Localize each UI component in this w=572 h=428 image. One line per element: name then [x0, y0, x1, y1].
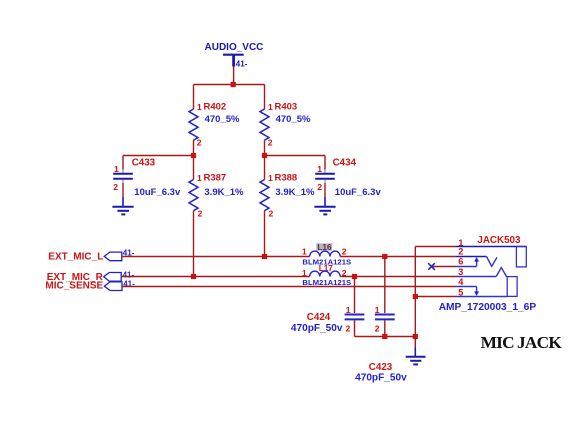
svg-text:BLM21A121S: BLM21A121S — [302, 278, 351, 287]
wire R387 down to EXT_MIC_R line — [193, 211, 195, 277]
node junction left — [191, 153, 196, 158]
wire C424 column — [354, 277, 356, 314]
svg-text:C433: C433 — [132, 158, 156, 169]
svg-text:1: 1 — [114, 164, 119, 174]
ground under jack — [406, 348, 426, 365]
node junction C423/bottom rail — [382, 334, 387, 339]
svg-text:1: 1 — [302, 268, 307, 278]
wire left column to R402 — [193, 85, 195, 110]
wire pin 6 stub — [432, 266, 457, 268]
node junction pin5 tap — [413, 294, 418, 299]
wire C424 to bottom rail — [354, 320, 356, 336]
svg-text:2: 2 — [346, 323, 351, 333]
wire R403 to node — [264, 140, 266, 155]
switch arrow pin4 to pin5 — [476, 287, 478, 293]
svg-text:2: 2 — [458, 247, 463, 257]
capacitor C423 — [355, 305, 407, 384]
svg-text:470_5%: 470_5% — [276, 114, 311, 125]
wire C434 to ground — [324, 183, 326, 197]
svg-text:2: 2 — [342, 247, 347, 257]
svg-text:1: 1 — [268, 102, 273, 112]
pin 6 line — [456, 266, 477, 268]
resistor R387 — [189, 173, 244, 219]
node junction right — [262, 153, 267, 158]
wire node to C433 — [123, 155, 194, 157]
svg-text:C434: C434 — [333, 158, 357, 169]
svg-text:2: 2 — [268, 138, 273, 148]
svg-text:1: 1 — [197, 102, 202, 112]
node junction C424 tap — [352, 274, 357, 279]
ring spring peak — [496, 268, 507, 277]
resistor R403 — [260, 101, 311, 147]
svg-text:R402: R402 — [204, 101, 227, 112]
wire L16 to jack pin 2 — [340, 256, 456, 258]
node junction C423 tap — [382, 254, 387, 259]
wire right column to R403 — [264, 85, 266, 110]
tip spring V — [487, 257, 498, 267]
svg-text:C423: C423 — [369, 362, 393, 373]
port EXT_MIC_R — [47, 271, 135, 283]
svg-text:6: 6 — [458, 257, 463, 267]
svg-text:R388: R388 — [275, 173, 298, 184]
svg-text:1: 1 — [302, 247, 307, 257]
svg-text:2: 2 — [269, 209, 274, 219]
capacitor C434 — [315, 156, 381, 198]
wire VCC stem — [233, 67, 235, 85]
pin 2 line — [456, 256, 487, 258]
wire C423 to bottom rail — [384, 320, 386, 336]
resistor R402 — [189, 101, 240, 147]
svg-text:1: 1 — [268, 173, 273, 183]
port EXT_MIC_L — [48, 249, 134, 263]
wire bottom rail — [355, 336, 416, 338]
svg-text:2: 2 — [198, 209, 203, 219]
svg-text:R403: R403 — [275, 101, 298, 112]
svg-text:MICJACK: MICJACK — [481, 333, 563, 352]
wire EXT_MIC_L to L16 — [122, 256, 310, 258]
wire node to C434 — [265, 155, 326, 157]
svg-text:3.9K_1%: 3.9K_1% — [204, 187, 244, 198]
inductor L17 — [302, 264, 351, 287]
svg-text:1: 1 — [317, 164, 322, 174]
node junction R388/EXT_MIC_L — [262, 254, 267, 259]
wire EXT_MIC_R to L17 — [121, 276, 309, 278]
svg-text:10uF_6.3v: 10uF_6.3v — [134, 187, 181, 198]
wire C423 column — [384, 257, 386, 314]
node junction jack-ground/bottom rail — [413, 334, 418, 339]
svg-text:3: 3 — [458, 267, 463, 277]
no-connect X on pin 6 — [428, 263, 435, 270]
svg-text:R387: R387 — [204, 173, 227, 184]
node junction on top rail — [231, 82, 236, 87]
wire L17 to jack pin 3 — [340, 276, 456, 278]
svg-text:3.9K_1%: 3.9K_1% — [275, 187, 315, 198]
pin 4 line — [456, 286, 477, 288]
pin 5 line — [456, 296, 507, 298]
power symbol AUDIO_VCC — [205, 42, 264, 69]
tip contact rectangle — [516, 247, 526, 267]
svg-text:MIC_SENSE: MIC_SENSE — [45, 281, 103, 292]
switch arrow pin6 to pin2 — [476, 261, 478, 267]
svg-text:1: 1 — [346, 305, 351, 315]
wire R402 to node — [193, 140, 195, 155]
svg-text:470_5%: 470_5% — [205, 114, 240, 125]
svg-text:2: 2 — [317, 182, 322, 192]
svg-text:1: 1 — [375, 305, 380, 315]
svg-text:4: 4 — [458, 277, 464, 287]
capacitor C424 — [291, 305, 365, 334]
svg-text:JACK503: JACK503 — [477, 235, 521, 246]
svg-text:2: 2 — [375, 323, 380, 333]
wire top rail — [194, 84, 265, 86]
wire right column R388 top — [264, 156, 266, 180]
svg-text:EXT_MIC_L: EXT_MIC_L — [48, 252, 103, 263]
ground under C433 — [112, 197, 133, 214]
svg-text:AUDIO_VCC: AUDIO_VCC — [205, 42, 264, 53]
capacitor C433 — [113, 156, 181, 198]
pin 3 line — [456, 276, 496, 278]
svg-text:470pF_50v: 470pF_50v — [291, 323, 343, 334]
wire MIC_SENSE to jack pin 4 — [122, 286, 456, 288]
resistor R388 — [260, 173, 315, 219]
wire C433 to ground — [122, 183, 124, 197]
port MIC_SENSE — [45, 279, 135, 291]
wire jack ground column — [414, 247, 416, 337]
svg-text:41-: 41- — [236, 60, 248, 69]
ground under C434 — [314, 197, 335, 214]
svg-text:C424: C424 — [307, 312, 331, 323]
svg-text:2: 2 — [113, 182, 118, 192]
svg-text:AMP_1720003_1_6P: AMP_1720003_1_6P — [439, 302, 537, 313]
svg-text:470pF_50v: 470pF_50v — [355, 373, 407, 384]
wire pin 5 — [415, 296, 456, 298]
inductor L16 — [302, 243, 351, 266]
wire pin 1 — [415, 246, 456, 248]
pin 1 line — [456, 246, 526, 248]
connector JACK503 AMP_1720003_1_6P — [439, 235, 537, 313]
svg-text:2: 2 — [197, 138, 202, 148]
svg-text:10uF_6.3v: 10uF_6.3v — [335, 187, 382, 198]
wire R388 down to EXT_MIC_L line — [264, 211, 266, 257]
wire left column R387 top — [193, 156, 195, 180]
wire ground stem below bottom rail — [414, 337, 416, 348]
sleeve contact rectangle — [507, 277, 517, 297]
svg-text:1: 1 — [197, 173, 202, 183]
svg-text:41-: 41- — [123, 271, 135, 280]
node junction R387/EXT_MIC_R — [191, 274, 196, 279]
